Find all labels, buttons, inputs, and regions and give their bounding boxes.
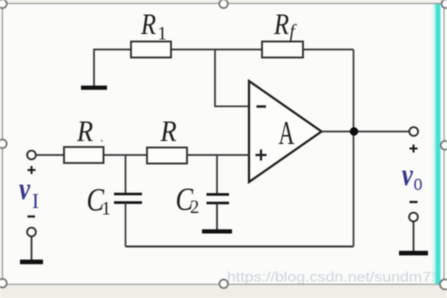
svg-text:R: R: [140, 8, 156, 41]
svg-text:o: o: [414, 168, 423, 195]
label R1: [140, 8, 167, 45]
label C1: [87, 182, 111, 220]
label Rf: [273, 8, 297, 43]
wire top left from ground to R1: [94, 50, 131, 87]
node output junction dot: [350, 127, 358, 135]
label R (first) stray dot: [101, 140, 103, 142]
capacitor C2: [207, 194, 230, 203]
svg-text:I: I: [32, 189, 39, 213]
svg-text:1: 1: [158, 25, 167, 45]
output lower terminal: [409, 213, 418, 222]
svg-text:A: A: [279, 114, 295, 152]
wire R1 to Rf: [171, 49, 262, 51]
wire C2 lower lead: [216, 203, 218, 230]
ground (C2): [202, 229, 232, 233]
wire C1 lower lead: [125, 203, 127, 247]
input plus mark: [28, 166, 36, 174]
svg-text:v: v: [402, 157, 413, 193]
label vI: [19, 171, 39, 213]
wire feedback vertical: [353, 50, 355, 247]
wire C1 upper lead: [125, 155, 127, 194]
resistor Rf: [262, 42, 303, 58]
svg-text:https://blog.csdn.net/sundm75: https://blog.csdn.net/sundm75: [227, 270, 440, 285]
wire R to R: [104, 154, 148, 156]
resistor R (first): [64, 147, 104, 163]
output terminal vO+: [409, 127, 418, 136]
label C2: [176, 181, 200, 218]
op-amp plus sign: [256, 150, 267, 161]
wire Rf to feedback corner: [303, 49, 354, 51]
wire bottom feedback return: [126, 246, 354, 248]
wire output terminal to ground: [413, 221, 415, 251]
ground (input): [20, 260, 43, 265]
wire input terminal to ground: [31, 236, 33, 260]
svg-text:R: R: [273, 8, 289, 41]
wire input to R: [36, 154, 64, 156]
svg-text:R: R: [76, 116, 93, 149]
wire inverting input branch: [215, 50, 249, 107]
input terminal vI+: [27, 151, 36, 160]
ground (top-left, R1 return): [81, 86, 107, 90]
ground (output): [399, 251, 428, 256]
resistor R (second): [147, 148, 187, 164]
input lower terminal: [27, 228, 36, 237]
output plus mark: [410, 145, 418, 153]
input minus mark: [28, 215, 36, 217]
wire op-amp output: [322, 131, 410, 133]
svg-text:R: R: [160, 116, 177, 149]
op-amp minus sign: [257, 105, 267, 107]
svg-text:v: v: [19, 171, 30, 207]
output minus mark: [410, 201, 418, 203]
capacitor C1: [114, 194, 142, 203]
svg-text:2: 2: [190, 198, 199, 218]
wire R to op-amp plus input: [187, 154, 249, 156]
wire C2 upper lead: [216, 155, 218, 194]
svg-text:1: 1: [102, 200, 111, 220]
op-amp U1 (A): [249, 81, 322, 182]
label vO: [402, 157, 423, 195]
resistor R1: [131, 42, 171, 58]
